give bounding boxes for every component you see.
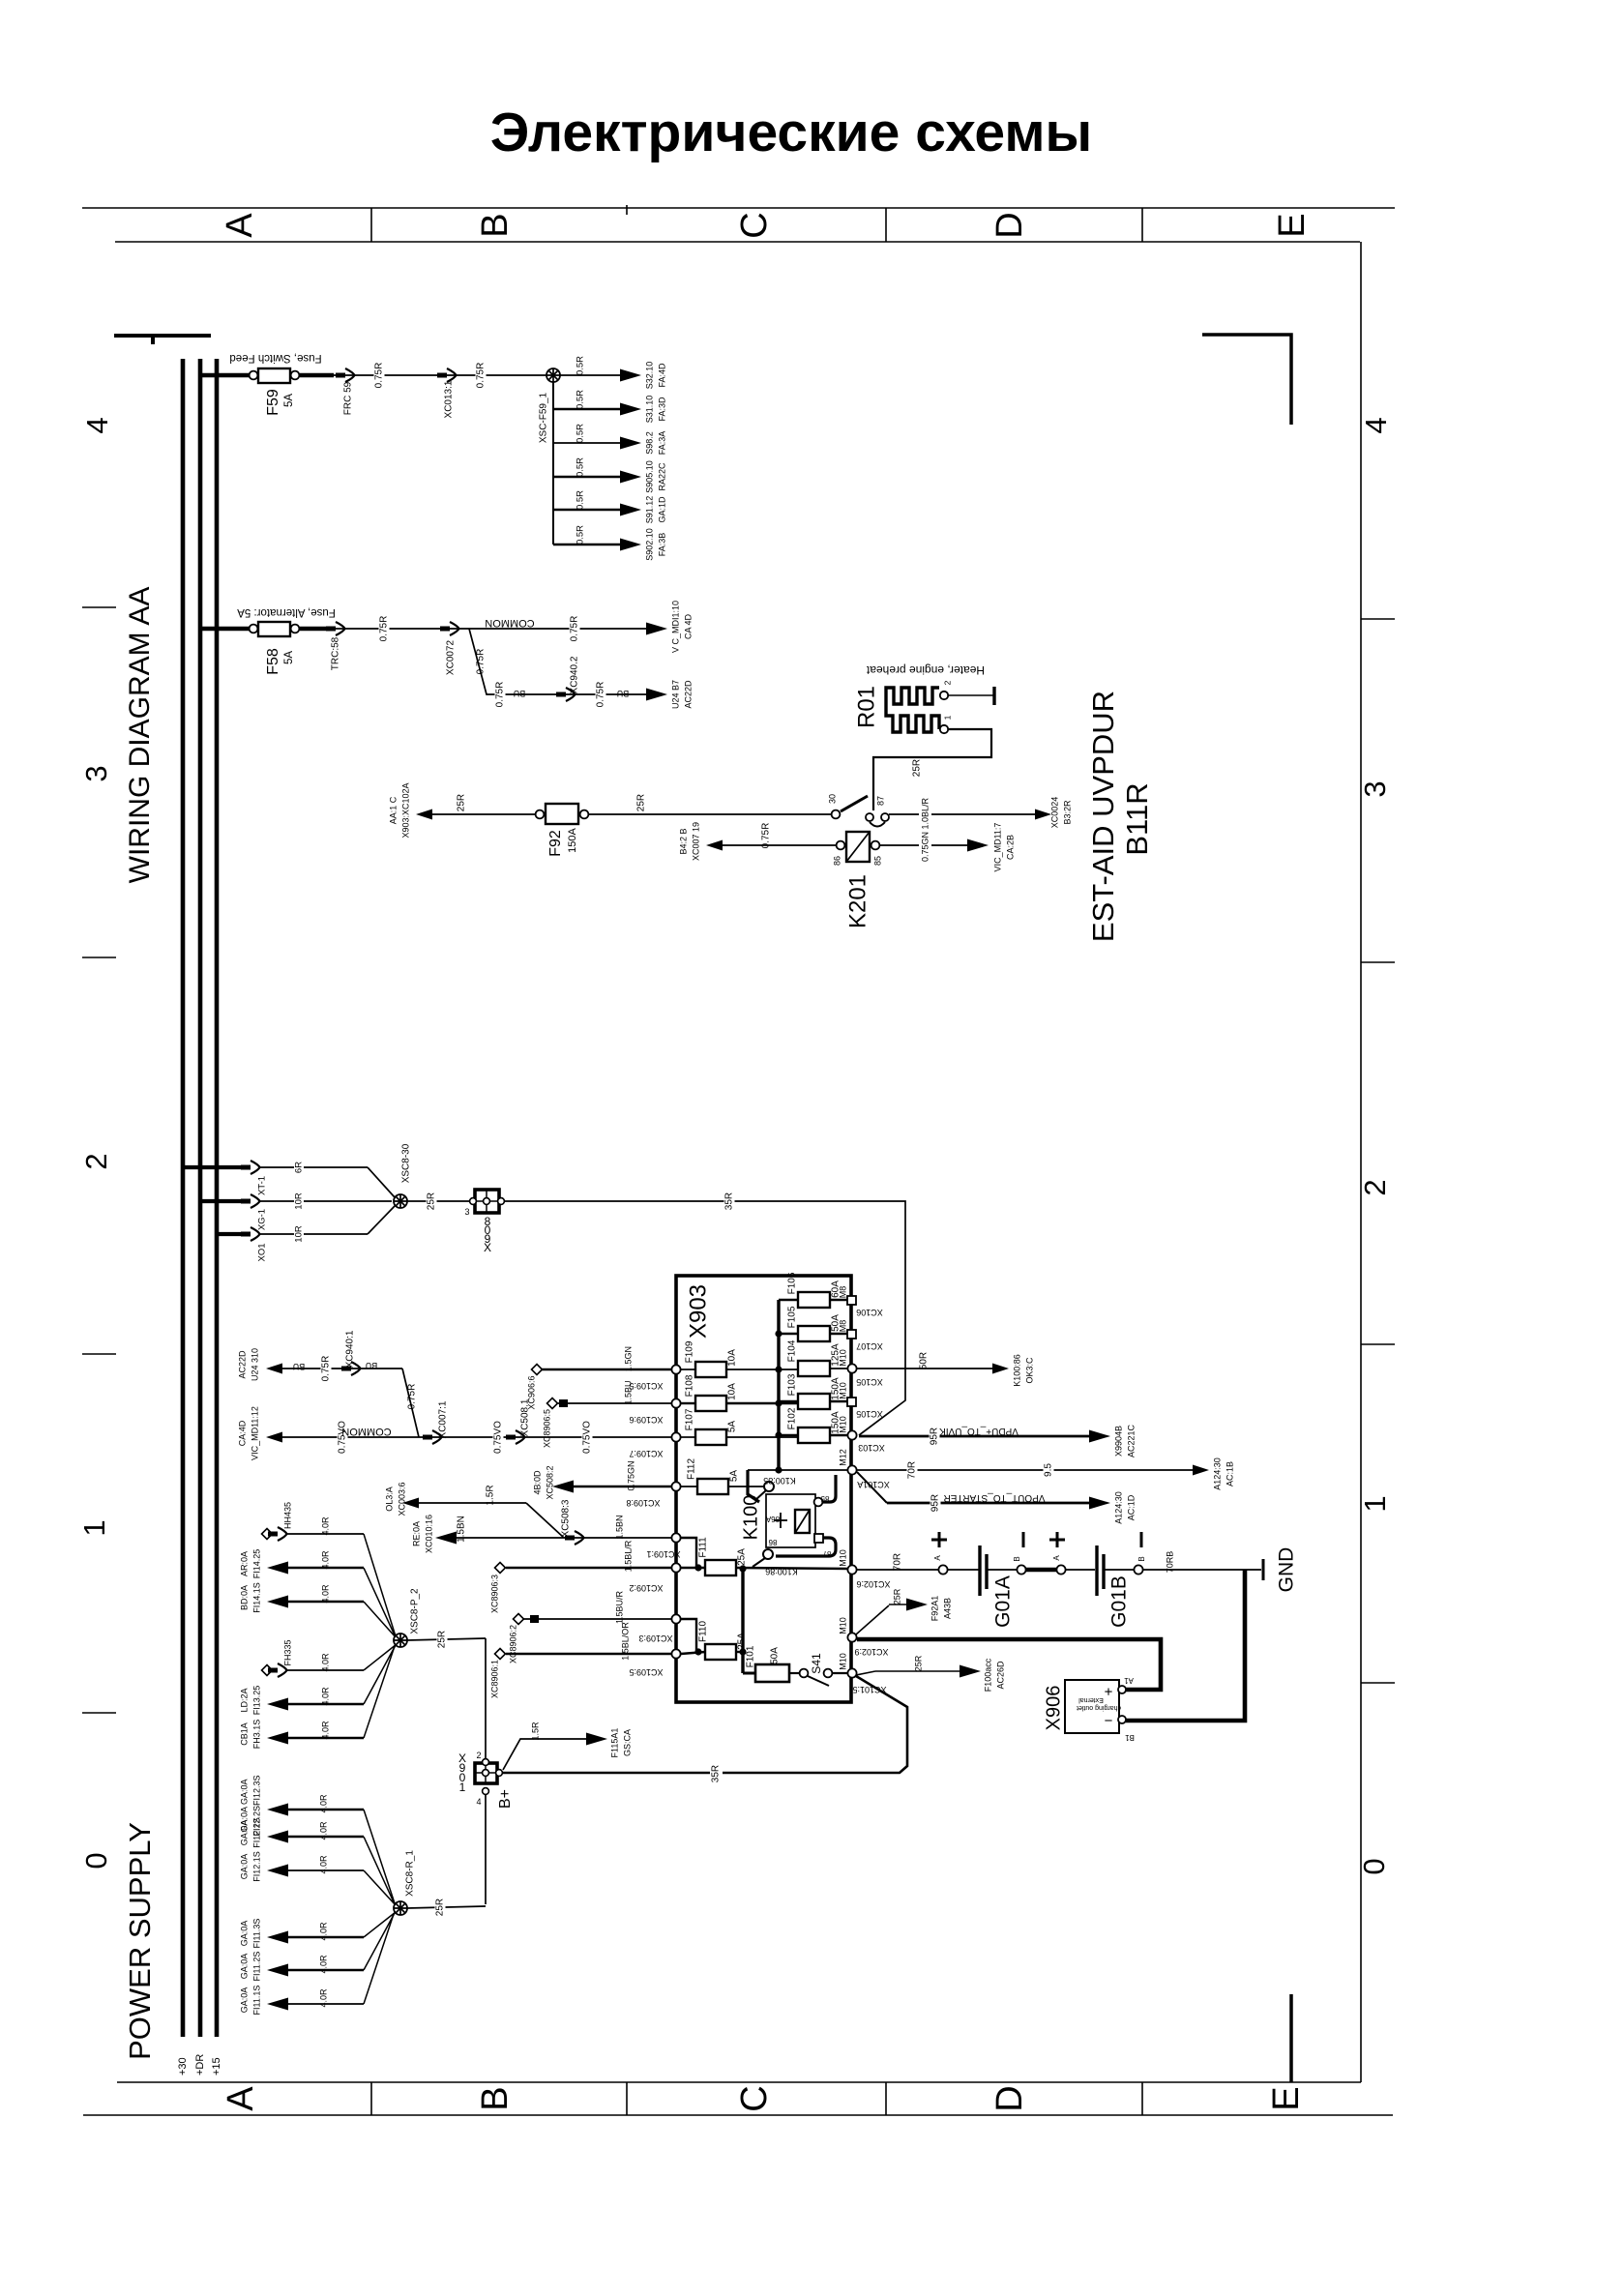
svg-text:M10: M10 xyxy=(838,1617,847,1634)
svg-text:XC109:2: XC109:2 xyxy=(629,1583,663,1593)
svg-text:0.75VO: 0.75VO xyxy=(493,1421,504,1454)
svg-text:F109: F109 xyxy=(685,1340,695,1363)
svg-text:AA:1 C: AA:1 C xyxy=(388,796,398,824)
svg-text:0.75R: 0.75R xyxy=(761,823,772,849)
svg-text:2: 2 xyxy=(942,680,952,685)
svg-text:BD:0A: BD:0A xyxy=(239,1585,249,1610)
svg-text:150A: 150A xyxy=(567,827,578,852)
svg-text:A: A xyxy=(221,2086,261,2111)
svg-text:EST-AID UVPDUR: EST-AID UVPDUR xyxy=(1086,691,1120,942)
svg-text:FI12.2S: FI12.2S xyxy=(251,1817,261,1848)
svg-text:M8: M8 xyxy=(838,1320,847,1333)
svg-text:0.5R: 0.5R xyxy=(576,490,586,510)
svg-text:B: B xyxy=(1013,1556,1021,1561)
svg-text:F115A1: F115A1 xyxy=(609,1728,619,1758)
svg-text:25A: 25A xyxy=(737,1548,748,1566)
svg-text:1.5BN: 1.5BN xyxy=(614,1515,624,1539)
svg-text:F106: F106 xyxy=(787,1272,798,1294)
svg-text:F108: F108 xyxy=(685,1374,695,1397)
svg-text:−: − xyxy=(1104,1712,1112,1728)
svg-text:XC109:5: XC109:5 xyxy=(629,1667,663,1677)
svg-text:0.5R: 0.5R xyxy=(576,424,586,443)
svg-text:RA22C: RA22C xyxy=(657,462,666,491)
svg-text:B3:2R: B3:2R xyxy=(1062,800,1072,825)
svg-text:0.5R: 0.5R xyxy=(576,457,586,477)
svg-text:35R: 35R xyxy=(724,1192,735,1210)
svg-text:1: 1 xyxy=(459,1781,466,1794)
svg-text:S41: S41 xyxy=(810,1653,823,1674)
svg-text:FH3.1S: FH3.1S xyxy=(251,1720,261,1750)
svg-text:XC8906:1: XC8906:1 xyxy=(489,1660,499,1698)
svg-text:0.5R: 0.5R xyxy=(576,525,586,545)
svg-text:S32.10: S32.10 xyxy=(644,362,654,390)
svg-text:XC105: XC105 xyxy=(856,1409,883,1419)
svg-text:0.5R: 0.5R xyxy=(576,390,586,409)
svg-text:V C_MDI1:10: V C_MDI1:10 xyxy=(670,601,680,653)
svg-text:0.75R: 0.75R xyxy=(476,363,487,389)
svg-text:5A: 5A xyxy=(729,1470,740,1483)
svg-text:K100:86: K100:86 xyxy=(1012,1354,1021,1387)
svg-text:4.0R: 4.0R xyxy=(320,1516,330,1536)
svg-text:4.0R: 4.0R xyxy=(320,1687,330,1706)
svg-text:K201: K201 xyxy=(844,874,871,928)
svg-text:CA:4D: CA:4D xyxy=(237,1420,247,1446)
svg-text:M8: M8 xyxy=(838,1286,847,1299)
svg-text:2: 2 xyxy=(79,1153,113,1169)
svg-text:F92A1: F92A1 xyxy=(930,1596,939,1622)
svg-text:M12: M12 xyxy=(838,1449,847,1466)
svg-text:XC109:6: XC109:6 xyxy=(629,1415,663,1425)
svg-text:GA:1D: GA:1D xyxy=(657,496,666,523)
svg-text:BU: BU xyxy=(514,689,526,698)
svg-text:25R: 25R xyxy=(912,759,923,777)
svg-text:85: 85 xyxy=(872,856,882,866)
svg-text:S905.10: S905.10 xyxy=(644,460,654,493)
svg-text:0.75R: 0.75R xyxy=(407,1384,418,1410)
svg-text:FA:3D: FA:3D xyxy=(657,397,666,422)
svg-text:XC103: XC103 xyxy=(858,1443,885,1453)
svg-text:XC003:6: XC003:6 xyxy=(397,1482,406,1516)
svg-text:G01B: G01B xyxy=(1108,1575,1131,1628)
svg-text:1.5R: 1.5R xyxy=(530,1722,540,1741)
svg-text:A: A xyxy=(1052,1555,1061,1561)
svg-text:COMMON: COMMON xyxy=(341,1426,391,1437)
svg-text:GA:0A: GA:0A xyxy=(239,1954,249,1980)
svg-text:70RB: 70RB xyxy=(1165,1551,1174,1574)
svg-text:X906: X906 xyxy=(1043,1686,1064,1731)
svg-text:70R: 70R xyxy=(907,1461,918,1479)
svg-text:XC007 19: XC007 19 xyxy=(691,822,700,861)
svg-text:0.75R: 0.75R xyxy=(374,363,385,389)
svg-text:87: 87 xyxy=(822,1549,831,1558)
svg-text:XC8906:3: XC8906:3 xyxy=(489,1575,499,1613)
svg-text:BU: BU xyxy=(617,689,630,698)
svg-text:25R: 25R xyxy=(435,1899,446,1916)
svg-text:86: 86 xyxy=(832,856,842,866)
svg-text:XC102:6: XC102:6 xyxy=(856,1579,890,1589)
svg-text:0.75R: 0.75R xyxy=(495,682,506,708)
svg-text:FA:3A: FA:3A xyxy=(657,431,666,456)
svg-text:K100:86: K100:86 xyxy=(765,1567,798,1576)
svg-text:70R: 70R xyxy=(893,1553,903,1571)
svg-text:CA:2B: CA:2B xyxy=(1005,835,1015,860)
svg-text:XSC8-30: XSC8-30 xyxy=(401,1143,412,1183)
svg-text:B: B xyxy=(475,213,516,237)
svg-text:50A: 50A xyxy=(770,1647,781,1664)
svg-text:TRC:58: TRC:58 xyxy=(331,636,341,670)
svg-text:B4:2 B: B4:2 B xyxy=(678,828,688,854)
svg-text:35R: 35R xyxy=(711,1765,722,1782)
svg-text:F101: F101 xyxy=(746,1645,756,1667)
svg-text:25R: 25R xyxy=(636,794,647,811)
svg-text:X9904B: X9904B xyxy=(1113,1426,1123,1457)
svg-text:4.0R: 4.0R xyxy=(320,1550,330,1570)
svg-text:S91.12: S91.12 xyxy=(644,496,654,524)
svg-text:+15: +15 xyxy=(211,2057,222,2075)
svg-text:CA 4D: CA 4D xyxy=(683,613,693,639)
svg-text:GA:0A: GA:0A xyxy=(239,1987,249,2014)
svg-text:VIC_MD11:7: VIC_MD11:7 xyxy=(992,823,1002,872)
svg-text:AC:1B: AC:1B xyxy=(1225,1461,1234,1487)
svg-text:A124:30: A124:30 xyxy=(1113,1491,1123,1524)
svg-text:95R: 95R xyxy=(930,1428,940,1445)
svg-text:1: 1 xyxy=(77,1519,111,1536)
svg-text:25R: 25R xyxy=(437,1631,448,1648)
svg-text:C: C xyxy=(734,212,775,238)
svg-text:XC8906:5: XC8906:5 xyxy=(542,1409,551,1448)
svg-text:2: 2 xyxy=(476,1751,481,1760)
svg-text:A124:30: A124:30 xyxy=(1212,1457,1222,1490)
svg-text:XC109:8: XC109:8 xyxy=(626,1498,660,1508)
svg-text:0: 0 xyxy=(79,1852,113,1869)
svg-text:POWER SUPPLY: POWER SUPPLY xyxy=(123,1822,157,2060)
svg-text:0.75R: 0.75R xyxy=(570,616,580,642)
svg-text:F110: F110 xyxy=(698,1621,709,1642)
svg-text:XC106: XC106 xyxy=(856,1308,883,1317)
svg-text:3: 3 xyxy=(464,1207,469,1217)
svg-text:K100: K100 xyxy=(740,1495,761,1541)
svg-text:VPDU+_TO_UVIK: VPDU+_TO_UVIK xyxy=(939,1426,1019,1436)
svg-text:F111: F111 xyxy=(698,1537,709,1558)
svg-text:9.5: 9.5 xyxy=(1044,1463,1054,1477)
svg-text:86A: 86A xyxy=(765,1515,780,1523)
svg-text:C: C xyxy=(734,2085,775,2111)
svg-text:FRC 59: FRC 59 xyxy=(343,381,354,415)
svg-text:1.5BU: 1.5BU xyxy=(623,1380,633,1404)
svg-text:XC101:5: XC101:5 xyxy=(852,1685,886,1694)
svg-text:LD:2A: LD:2A xyxy=(239,1688,249,1712)
svg-text:XC0072: XC0072 xyxy=(446,639,457,675)
svg-text:XC940:1: XC940:1 xyxy=(345,1330,356,1368)
svg-text:D: D xyxy=(989,2085,1030,2111)
svg-text:4: 4 xyxy=(80,417,114,433)
svg-text:GA:0A: GA:0A xyxy=(239,1921,249,1947)
svg-text:OL3:A: OL3:A xyxy=(384,1487,394,1512)
svg-text:AC221C: AC221C xyxy=(1126,1424,1136,1457)
svg-text:XSC8-P_2: XSC8-P_2 xyxy=(410,1588,421,1634)
svg-text:CB1A: CB1A xyxy=(239,1722,249,1746)
svg-text:FI12.1S: FI12.1S xyxy=(251,1851,261,1882)
svg-text:4: 4 xyxy=(1359,417,1393,433)
svg-text:B: B xyxy=(475,2086,516,2110)
svg-text:F102: F102 xyxy=(787,1407,798,1429)
svg-text:VIC_MD11:12: VIC_MD11:12 xyxy=(250,1406,259,1460)
svg-text:Fuse, Switch Feed: Fuse, Switch Feed xyxy=(229,352,321,364)
svg-text:0.5R: 0.5R xyxy=(576,356,586,375)
svg-text:X: X xyxy=(484,1241,491,1254)
svg-text:+DR: +DR xyxy=(194,2054,206,2075)
svg-text:87: 87 xyxy=(875,796,885,806)
svg-text:AC22D: AC22D xyxy=(237,1350,247,1379)
svg-text:R01: R01 xyxy=(853,686,879,728)
svg-text:1.5BN: 1.5BN xyxy=(457,1516,467,1543)
svg-text:K100:85: K100:85 xyxy=(763,1476,796,1486)
svg-text:95R: 95R xyxy=(930,1494,941,1512)
svg-text:X903: X903 xyxy=(685,1284,711,1339)
svg-text:1: 1 xyxy=(942,715,952,720)
svg-text:GS:CA: GS:CA xyxy=(622,1729,632,1756)
svg-text:+: + xyxy=(1104,1683,1112,1699)
svg-text:XC508:3: XC508:3 xyxy=(561,1499,572,1537)
svg-text:XC105: XC105 xyxy=(856,1377,883,1387)
svg-text:E: E xyxy=(1272,213,1313,237)
svg-text:AR:0A: AR:0A xyxy=(239,1551,249,1576)
svg-text:0.75R: 0.75R xyxy=(476,649,487,675)
svg-text:A1: A1 xyxy=(1124,1676,1134,1685)
svg-text:A43B: A43B xyxy=(942,1598,952,1619)
svg-text:86: 86 xyxy=(768,1538,777,1546)
svg-text:10R: 10R xyxy=(294,1192,305,1210)
svg-text:XC0024: XC0024 xyxy=(1049,797,1059,829)
svg-text:BU: BU xyxy=(366,1361,378,1370)
svg-text:External: External xyxy=(1078,1696,1104,1703)
svg-text:4.0R: 4.0R xyxy=(320,1721,330,1740)
svg-text:M10: M10 xyxy=(838,1653,847,1670)
svg-text:FI11.3S: FI11.3S xyxy=(251,1919,261,1949)
svg-text:FI11.2S: FI11.2S xyxy=(251,1952,261,1982)
svg-text:S902.10: S902.10 xyxy=(644,528,654,561)
svg-text:X903:XC102A: X903:XC102A xyxy=(400,782,410,838)
svg-text:XC102:9: XC102:9 xyxy=(854,1647,888,1657)
svg-text:WIRING DIAGRAM AA: WIRING DIAGRAM AA xyxy=(124,587,156,884)
svg-text:25R: 25R xyxy=(427,1192,437,1210)
svg-text:30: 30 xyxy=(827,794,837,804)
svg-text:85: 85 xyxy=(820,1494,829,1503)
svg-text:F107: F107 xyxy=(685,1408,695,1430)
svg-text:F112: F112 xyxy=(687,1458,697,1480)
svg-text:M10: M10 xyxy=(838,1382,847,1399)
svg-text:XO1: XO1 xyxy=(257,1243,268,1261)
svg-text:XC508.1: XC508.1 xyxy=(520,1398,531,1436)
svg-text:GND: GND xyxy=(1276,1547,1298,1593)
svg-text:G01A: G01A xyxy=(992,1575,1015,1628)
svg-text:VPOUT_TO_STARTER: VPOUT_TO_STARTER xyxy=(943,1492,1045,1503)
svg-text:FH335: FH335 xyxy=(282,1639,292,1665)
svg-text:0: 0 xyxy=(1357,1858,1391,1874)
svg-text:D: D xyxy=(989,212,1030,238)
svg-text:XC109:7: XC109:7 xyxy=(629,1449,663,1458)
svg-text:M10: M10 xyxy=(838,1349,847,1367)
svg-text:XC109:5: XC109:5 xyxy=(629,1381,663,1391)
svg-text:4.0R: 4.0R xyxy=(318,1988,328,2008)
svg-text:XSC8-R_1: XSC8-R_1 xyxy=(405,1850,416,1897)
svg-text:HH435: HH435 xyxy=(282,1502,292,1529)
svg-text:FI14.25: FI14.25 xyxy=(251,1549,261,1579)
svg-text:XC007:1: XC007:1 xyxy=(438,1400,449,1438)
svg-text:XT-1: XT-1 xyxy=(257,1176,268,1195)
svg-text:4.0R: 4.0R xyxy=(320,1653,330,1672)
svg-text:XC013:1: XC013:1 xyxy=(444,380,455,418)
svg-text:1.5GN: 1.5GN xyxy=(623,1346,633,1371)
svg-text:M10: M10 xyxy=(838,1549,847,1567)
svg-text:10R: 10R xyxy=(294,1225,305,1243)
svg-text:E: E xyxy=(1266,2086,1307,2110)
svg-text:GA:0A: GA:0A xyxy=(239,1854,249,1880)
svg-text:XC107: XC107 xyxy=(856,1341,883,1351)
svg-text:AC22D: AC22D xyxy=(683,680,693,709)
svg-text:XC010:16: XC010:16 xyxy=(424,1515,433,1553)
svg-text:FI11.1S: FI11.1S xyxy=(251,1986,261,2016)
svg-text:4.0R: 4.0R xyxy=(318,1955,328,1974)
svg-text:XC8906:2: XC8906:2 xyxy=(508,1625,517,1663)
svg-text:Heater, engine preheat: Heater, engine preheat xyxy=(866,663,985,677)
svg-text:Электрические схемы: Электрические схемы xyxy=(490,102,1092,163)
svg-text:XC109:1: XC109:1 xyxy=(646,1549,680,1559)
svg-text:U24 310: U24 310 xyxy=(250,1348,259,1381)
svg-text:0.75R: 0.75R xyxy=(379,616,390,642)
svg-text:XC508:2: XC508:2 xyxy=(545,1465,554,1499)
svg-text:B11R: B11R xyxy=(1120,782,1154,855)
svg-text:charging outlet: charging outlet xyxy=(1077,1704,1121,1711)
svg-text:XC940.2: XC940.2 xyxy=(570,656,580,693)
svg-text:50R: 50R xyxy=(919,1352,930,1369)
svg-text:U24 B7: U24 B7 xyxy=(670,680,680,709)
svg-text:B1: B1 xyxy=(1125,1733,1135,1742)
svg-text:F100acc: F100acc xyxy=(983,1658,992,1692)
svg-text:AC26D: AC26D xyxy=(995,1661,1005,1690)
svg-text:GA:0A: GA:0A xyxy=(239,1820,249,1846)
svg-text:OK3:C: OK3:C xyxy=(1024,1357,1034,1384)
svg-text:F92: F92 xyxy=(547,830,564,857)
svg-text:4.0R: 4.0R xyxy=(318,1855,328,1874)
svg-text:0.75VO: 0.75VO xyxy=(582,1421,593,1454)
svg-text:5A: 5A xyxy=(283,394,295,407)
svg-text:4B:0D: 4B:0D xyxy=(532,1470,542,1495)
svg-text:F58: F58 xyxy=(265,648,281,675)
svg-text:B+: B+ xyxy=(497,1789,514,1809)
svg-text:COMMON: COMMON xyxy=(485,617,534,629)
svg-text:FI14.1S: FI14.1S xyxy=(251,1582,261,1613)
svg-text:0.75GN 1.0BL/R: 0.75GN 1.0BL/R xyxy=(920,797,930,862)
svg-text:25R: 25R xyxy=(892,1588,901,1604)
svg-text:3: 3 xyxy=(1358,780,1392,797)
svg-text:S98.2: S98.2 xyxy=(644,431,654,455)
svg-text:XC109:3: XC109:3 xyxy=(638,1634,672,1643)
svg-text:0.75R: 0.75R xyxy=(321,1356,332,1382)
svg-text:FA:3B: FA:3B xyxy=(657,533,666,557)
svg-text:4.0R: 4.0R xyxy=(318,1794,328,1813)
svg-text:5A: 5A xyxy=(283,651,295,664)
svg-text:1: 1 xyxy=(1358,1495,1392,1512)
svg-text:4.0R: 4.0R xyxy=(318,1922,328,1941)
svg-text:F104: F104 xyxy=(787,1339,798,1362)
svg-text:25R: 25R xyxy=(457,794,467,811)
svg-text:F103: F103 xyxy=(787,1373,798,1396)
svg-text:XG-1: XG-1 xyxy=(257,1209,268,1230)
svg-text:2: 2 xyxy=(1358,1179,1392,1195)
svg-text:4.0R: 4.0R xyxy=(318,1821,328,1840)
svg-text:5A: 5A xyxy=(727,1421,738,1433)
svg-text:A: A xyxy=(933,1555,942,1561)
svg-text:BU: BU xyxy=(293,1362,306,1371)
svg-text:F105: F105 xyxy=(787,1306,798,1328)
svg-text:Fuse, Alternator: 5A: Fuse, Alternator: 5A xyxy=(237,606,336,618)
svg-text:4: 4 xyxy=(476,1797,481,1807)
svg-text:S31.10: S31.10 xyxy=(644,396,654,424)
svg-text:XSC-F59_1: XSC-F59_1 xyxy=(539,392,549,443)
svg-text:AC:1D: AC:1D xyxy=(1126,1494,1136,1520)
svg-text:B: B xyxy=(1137,1556,1146,1561)
svg-text:FI13.25: FI13.25 xyxy=(251,1686,261,1716)
svg-text:RE:0A: RE:0A xyxy=(411,1521,421,1546)
svg-text:6R: 6R xyxy=(294,1162,305,1173)
svg-text:A: A xyxy=(220,213,260,238)
svg-text:0.75R: 0.75R xyxy=(596,682,606,708)
svg-text:FA:4D: FA:4D xyxy=(657,363,666,388)
svg-text:1.5R: 1.5R xyxy=(486,1485,496,1505)
svg-text:+30: +30 xyxy=(177,2057,189,2075)
svg-text:25R: 25R xyxy=(913,1655,923,1671)
svg-text:4.0R: 4.0R xyxy=(320,1584,330,1604)
svg-text:10A: 10A xyxy=(727,1349,738,1367)
svg-text:3: 3 xyxy=(79,765,113,781)
svg-text:M10: M10 xyxy=(838,1416,847,1433)
svg-text:F59: F59 xyxy=(265,389,281,416)
svg-text:10A: 10A xyxy=(727,1383,738,1400)
